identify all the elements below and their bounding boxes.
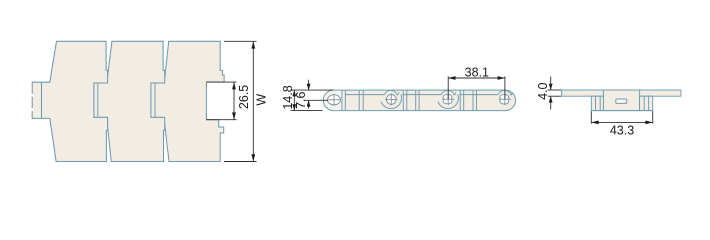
link plate 2 (recess at right, tab at left under link1) xyxy=(93,41,165,161)
svg-text:26.5: 26.5 xyxy=(237,85,251,109)
svg-text:4.0: 4.0 xyxy=(536,82,550,99)
dimension 26.5 extension lines (recess edges) xyxy=(206,82,236,120)
svg-text:7.6: 7.6 xyxy=(294,91,308,108)
svg-text:38.1: 38.1 xyxy=(465,65,489,79)
chain strip body xyxy=(323,90,515,111)
dimension W line with arrows xyxy=(252,41,254,161)
flat top plate xyxy=(562,90,681,96)
right leg xyxy=(640,96,653,110)
pin 4 hole xyxy=(500,95,509,104)
pin centre crosses xyxy=(328,93,511,106)
dimension 7.6 line with outside arrows xyxy=(305,80,328,109)
pin 2 hole xyxy=(386,95,396,105)
joint vertical lines xyxy=(342,90,477,111)
dimension 4.0 extension lines xyxy=(548,90,562,96)
dimension 14.8 line with arrows xyxy=(293,90,295,111)
link plate 1 (hinge tab at left, recess at right) xyxy=(32,41,107,161)
hinge barrel arcs around pin 2 xyxy=(381,90,402,108)
link plate 3 (with open recess at right) xyxy=(150,41,224,161)
dimension 43.3 line with arrows xyxy=(591,121,652,123)
svg-text:43.3: 43.3 xyxy=(610,124,634,138)
tab notch marks on link 1 xyxy=(32,94,34,111)
left end cap lighter region xyxy=(324,91,342,111)
tab edge of link 3 seen in link 2 recess xyxy=(154,84,156,117)
dimension W extension lines xyxy=(224,41,257,161)
pin 3 hole xyxy=(443,95,452,104)
svg-text:W: W xyxy=(255,94,269,106)
tab edge of link 2 seen in link 1 recess xyxy=(97,84,99,117)
svg-text:14.8: 14.8 xyxy=(281,85,295,109)
dimension 38.1 line with arrows xyxy=(448,77,505,79)
dimension 38.1 extension lines xyxy=(448,76,505,99)
dimension 4.0 line with outside arrows xyxy=(550,77,552,110)
centre block xyxy=(603,90,639,111)
left leg xyxy=(591,96,603,110)
dimension 26.5 line with arrows xyxy=(233,82,235,120)
bottom edge line xyxy=(591,110,652,112)
hinge arc over pin 4 xyxy=(498,90,513,95)
pin 1 (oval slot) xyxy=(328,95,341,105)
dimension 14.8 extension lines xyxy=(291,90,334,111)
slot in centre block xyxy=(616,99,627,103)
plate seam lines xyxy=(345,94,498,96)
hinge barrel arcs around pin 3 xyxy=(438,90,459,108)
dimension 43.3 extension lines xyxy=(591,111,652,123)
